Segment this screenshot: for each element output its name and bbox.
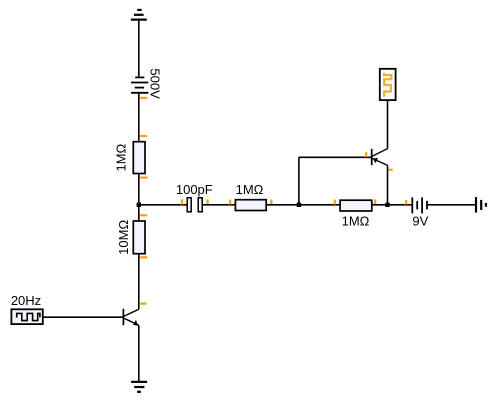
battery B1 500V	[131, 77, 148, 92]
pin C1 left (orange)	[181, 199, 183, 204]
node B	[297, 203, 301, 207]
pin R2 right (orange)	[270, 200, 272, 205]
pin R3 left (orange)	[334, 200, 336, 205]
svg-text:500V: 500V	[147, 68, 162, 99]
resistor R3 1MΩ (horizontal)	[340, 200, 372, 211]
pin R4 bottom (orange)	[140, 256, 147, 258]
wire node B up	[298, 157, 300, 205]
node A	[137, 203, 141, 207]
battery B2 9V	[412, 197, 427, 213]
wire R1 to node A	[138, 174, 140, 222]
wire to Q2 base	[299, 156, 372, 158]
pin Q2 base (orange)	[365, 152, 367, 157]
ground GND1 (top)	[131, 10, 147, 20]
pin B1 bottom (orange)	[140, 97, 147, 99]
pin R4 top (orange)	[140, 214, 147, 216]
svg-text:1MΩ: 1MΩ	[342, 214, 370, 229]
ground GND3 (bottom)	[131, 382, 147, 392]
wire B2 to ground GND2	[427, 204, 476, 206]
probe P1 (lamp/waveform probe)	[380, 69, 396, 100]
transistor Q2 (PNP)	[372, 149, 388, 166]
pin R1 top (orange)	[140, 135, 147, 137]
svg-text:9V: 9V	[412, 214, 428, 229]
transistor Q1 (NPN)	[123, 309, 138, 326]
capacitor C1 100pF	[187, 198, 202, 212]
ground GND2 (right)	[476, 197, 486, 212]
pin B2 left (orange)	[405, 200, 407, 205]
svg-text:100pF: 100pF	[176, 182, 213, 197]
wire Q2 collector to probe P1	[387, 100, 389, 149]
svg-text:1MΩ: 1MΩ	[236, 182, 264, 197]
wire node A to capacitor C1	[139, 204, 187, 206]
pin R3 right (orange)	[374, 200, 376, 205]
svg-text:10MΩ: 10MΩ	[116, 220, 131, 255]
resistor R2 1MΩ (horizontal)	[235, 200, 266, 211]
node C	[385, 203, 389, 207]
svg-text:1MΩ: 1MΩ	[114, 143, 129, 171]
pin R2 left (orange)	[229, 200, 231, 205]
pin C1 right (orange)	[207, 199, 209, 204]
wire R3 to node C to battery B2	[372, 204, 413, 206]
wire V1 to Q1 base	[43, 316, 124, 318]
signal source V1 (20Hz square wave)	[11, 309, 42, 324]
resistor R1 1MΩ (vertical)	[133, 142, 145, 174]
wire GND1 to battery B1	[138, 20, 140, 77]
wire Q2 emitter to node C	[387, 165, 389, 204]
svg-text:20Hz: 20Hz	[11, 293, 41, 308]
pin R1 bottom (orange)	[140, 177, 147, 179]
wire C1 to resistor R2	[202, 204, 235, 206]
wire R4 to transistor Q1 collector	[138, 254, 140, 310]
pin Q2 emitter (orange)	[389, 169, 393, 171]
wire R2 to node B to resistor R3	[266, 204, 340, 206]
pin Q1 collector (orange)	[140, 303, 146, 305]
wire Q1 emitter to GND3	[138, 325, 140, 382]
resistor R4 10MΩ (vertical)	[133, 221, 145, 254]
wire B1 to resistor R1	[138, 93, 140, 142]
